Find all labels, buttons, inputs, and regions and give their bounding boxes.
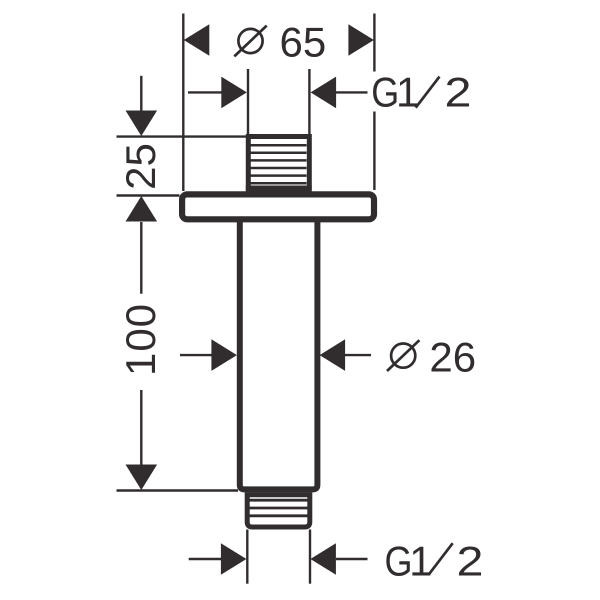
arrow G1/2 bottom right (points left) xyxy=(310,543,336,575)
extension line flange left (O65) xyxy=(182,14,184,192)
arrow O65 left (points left) xyxy=(184,24,210,56)
svg-text:1: 1 xyxy=(409,537,432,584)
dimension line G1/2 top left segment xyxy=(188,91,222,93)
extension line pipe bottom level (100 bottom) xyxy=(117,489,239,491)
extension line flange right (O65), gap for G1/2 text xyxy=(373,14,375,72)
dimension line 25/100 vertical segments xyxy=(140,76,142,111)
extension line top thread left xyxy=(247,69,249,135)
diameter symbol of O26 label xyxy=(387,340,419,371)
pipe body xyxy=(240,220,318,490)
extension line flange top level (25 bottom / 100 top) xyxy=(117,194,180,196)
arrow O26 right (points left) xyxy=(320,339,346,371)
bottom thread body outline xyxy=(247,495,310,527)
dimension line G1/2 bottom left segment xyxy=(189,558,222,560)
svg-text:2: 2 xyxy=(445,69,472,116)
top thread body outline xyxy=(248,137,309,189)
extension line bottom thread left xyxy=(246,530,248,584)
label G1/2 bottom xyxy=(385,537,484,584)
diameter symbol of O65 label xyxy=(234,26,266,57)
arrow 25 top (points down) xyxy=(126,111,158,137)
arrow G1/2 top right (points left) xyxy=(311,77,337,109)
svg-text:26: 26 xyxy=(429,334,476,381)
dimension line G1/2 top right segment xyxy=(336,91,368,93)
svg-text:65: 65 xyxy=(280,18,327,65)
dimension line G1/2 bottom right segment xyxy=(336,558,368,560)
top thread bottom band (merges into flange top) xyxy=(246,186,312,198)
arrow G1/2 top left (points right) xyxy=(221,77,247,109)
dimension line O26 left segment xyxy=(180,354,213,356)
extension line top thread right xyxy=(308,69,310,135)
arrow 100 bottom (points down) xyxy=(126,465,158,491)
bottom thread hatch lines xyxy=(250,500,308,516)
arrow O65 right (points right) xyxy=(348,24,374,56)
arrow 25 bottom / 100 top (points up) xyxy=(126,196,158,222)
label G1/2 top xyxy=(371,69,471,116)
arrow O26 left (points right) xyxy=(211,339,237,371)
flange (escutcheon plate) xyxy=(182,194,374,219)
svg-text:100: 100 xyxy=(117,303,164,376)
extension line thread top level (25 top) xyxy=(117,135,247,137)
top thread hatch lines xyxy=(251,145,307,183)
svg-text:2: 2 xyxy=(457,537,484,584)
extension line bottom thread right xyxy=(309,530,311,584)
svg-text:25: 25 xyxy=(117,143,164,190)
arrow G1/2 bottom left (points right) xyxy=(221,543,247,575)
dimension line O26 right segment xyxy=(345,354,371,356)
svg-text:1: 1 xyxy=(396,69,419,116)
